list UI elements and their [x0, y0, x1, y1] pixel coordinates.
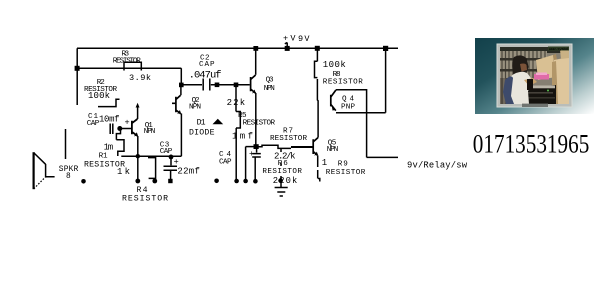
pink strip — [534, 74, 549, 80]
photo frame — [497, 44, 572, 107]
power +V stub — [285, 43, 287, 49]
resistor R7 body nub — [291, 146, 313, 148]
svg-text:Q3: Q3 — [266, 76, 274, 84]
capacitor C1 — [110, 124, 113, 135]
svg-text:RESISTOR: RESISTOR — [113, 57, 141, 65]
svg-text:22k: 22k — [227, 98, 246, 108]
wire left vertical from rail to R2 — [76, 48, 78, 105]
resistor R8 — [315, 61, 318, 77]
svg-text:+V: +V — [283, 34, 296, 44]
tan panels right — [536, 55, 556, 80]
transistor Q1 — [132, 119, 138, 136]
svg-text:R1: R1 — [99, 153, 108, 161]
svg-text:100k: 100k — [88, 91, 110, 101]
diode D1 — [213, 119, 224, 124]
node junction at 77,68 — [75, 66, 80, 71]
svg-text:10mf: 10mf — [99, 115, 120, 125]
svg-text:PNP: PNP — [341, 103, 355, 111]
svg-text:NPN: NPN — [264, 85, 275, 93]
svg-text:R9: R9 — [338, 160, 348, 168]
wire Q3 collector to rail — [255, 48, 257, 75]
node junction at 317,48 — [315, 46, 320, 51]
wire left stub of node to C4 column — [246, 146, 256, 148]
wire R6 column down to ground — [280, 148, 282, 180]
transistor Q3 — [251, 75, 256, 93]
node junction C3 tap at 171,157 — [169, 155, 174, 160]
node terminal dot — [152, 179, 157, 184]
transistor Q2 — [172, 95, 181, 114]
wire R3 rail y68 — [77, 67, 181, 69]
svg-text:01713531965: 01713531965 — [473, 129, 590, 159]
svg-text:www.sysbd: www.sysbd — [549, 47, 569, 52]
svg-text:100k: 100k — [323, 60, 346, 70]
svg-text:RESISTOR: RESISTOR — [270, 135, 307, 143]
resistor R5 — [236, 112, 240, 129]
svg-text:1m: 1m — [104, 142, 114, 152]
wire R7 segment with resistor bump — [256, 145, 291, 148]
wire output drop from box — [366, 113, 368, 158]
svg-text:DIODE: DIODE — [189, 129, 215, 138]
green label top-right — [548, 47, 569, 51]
svg-text:CAP: CAP — [160, 148, 173, 156]
photo gradient backdrop — [475, 38, 594, 114]
node terminal dot — [243, 179, 248, 184]
svg-text:D1: D1 — [197, 119, 206, 128]
node terminal dot — [253, 179, 258, 184]
node terminal dot — [81, 179, 86, 184]
svg-text:220k: 220k — [273, 176, 298, 186]
wire Q3 emitter down to node — [255, 93, 257, 147]
svg-text:.047uf: .047uf — [189, 70, 222, 82]
wire top +V rail — [77, 47, 398, 49]
wire R8 top to rail — [316, 48, 318, 61]
node terminal square — [168, 179, 172, 183]
capacitor C2 — [203, 79, 210, 91]
wire C4 bottom lead — [254, 157, 256, 180]
svg-text:RESISTOR: RESISTOR — [122, 195, 168, 204]
resistor R3 — [124, 62, 141, 70]
wire Q4 box outline — [336, 90, 367, 113]
node terminal dot — [214, 179, 219, 184]
wire Q1 collector up with arrow end — [137, 106, 139, 119]
wire C2 left segment — [181, 84, 202, 86]
wire R1 jog from base node — [116, 129, 120, 140]
wire R5 column from junction 236,84 — [235, 85, 237, 112]
speaker SPKR — [32, 152, 34, 189]
svg-text:RESISTOR: RESISTOR — [243, 120, 276, 128]
node junction at 236,84 — [234, 83, 239, 88]
node terminal dot — [278, 178, 283, 183]
wire C3 bottom lead — [170, 171, 172, 180]
svg-text:NPN: NPN — [189, 103, 201, 111]
wire right riser to top rail — [385, 48, 387, 112]
wire box bottom extension to right riser — [367, 112, 386, 114]
transistor Q4 — [331, 90, 336, 111]
svg-text:NPN: NPN — [327, 146, 339, 154]
wire R5 to bottom terminal — [235, 128, 237, 180]
svg-text:CAP: CAP — [199, 61, 215, 69]
photo caption — [522, 104, 548, 107]
node junction at 137.8,156 — [136, 154, 140, 158]
wire speaker column — [65, 129, 67, 159]
svg-text:9v/Relay/sw: 9v/Relay/sw — [407, 161, 468, 171]
node junction at 256,48 — [253, 46, 258, 51]
node junction at 385,48 — [383, 46, 388, 51]
wire Q2 emitter corner riser — [180, 114, 182, 157]
wire Q2 collector to junction — [180, 85, 182, 95]
node junction at 181,85 — [179, 83, 184, 88]
wire Q1 emitter column — [137, 136, 139, 180]
svg-text:+: + — [125, 117, 130, 127]
wire bottom rail y156 — [121, 155, 181, 157]
svg-text:Q4: Q4 — [342, 96, 354, 104]
wire Q5 emitter down through R9 — [318, 155, 320, 181]
svg-text:RESISTOR: RESISTOR — [323, 78, 363, 86]
wire output horizontal to relay — [367, 156, 398, 158]
node junction at 217,84 — [215, 83, 220, 88]
svg-text:22mf: 22mf — [177, 166, 200, 176]
svg-text:9V: 9V — [298, 34, 310, 44]
wire Q1 base stub — [121, 128, 132, 130]
ground — [275, 182, 288, 196]
capacitor C4 — [252, 147, 261, 157]
dark desk equipment — [524, 85, 556, 104]
svg-text:CAP: CAP — [87, 120, 100, 128]
node junction at 256,146.5 — [254, 144, 259, 149]
svg-text:R6: R6 — [278, 160, 288, 168]
svg-text:3.9k: 3.9k — [129, 73, 151, 83]
node junction at 119.5,128.5 — [117, 126, 122, 131]
resistor R4 — [148, 158, 156, 179]
wire from R3 rail down to C2 wire — [180, 68, 182, 85]
node junction at 287,48 — [285, 46, 290, 51]
wire C2 right segment to Q3 base — [211, 84, 250, 86]
resistor R2 — [98, 99, 120, 106]
svg-text:CAP: CAP — [219, 159, 232, 167]
svg-text:8: 8 — [66, 173, 71, 181]
node terminal dot — [234, 179, 239, 184]
svg-text:NPN: NPN — [144, 128, 156, 136]
svg-text:RESISTOR: RESISTOR — [262, 168, 302, 176]
svg-text:1: 1 — [322, 158, 327, 168]
svg-text:RESISTOR: RESISTOR — [326, 169, 366, 177]
man — [512, 55, 528, 79]
svg-text:1mf: 1mf — [232, 131, 253, 141]
photo image — [500, 47, 569, 104]
wire Q5 collector up to Q4 region (R8 column) — [316, 79, 319, 138]
wire C4 left column down — [245, 147, 247, 180]
transistor Q5 — [313, 138, 318, 156]
resistor R1 — [116, 140, 124, 156]
capacitor C3 — [164, 157, 178, 170]
node terminal dot — [135, 179, 140, 184]
